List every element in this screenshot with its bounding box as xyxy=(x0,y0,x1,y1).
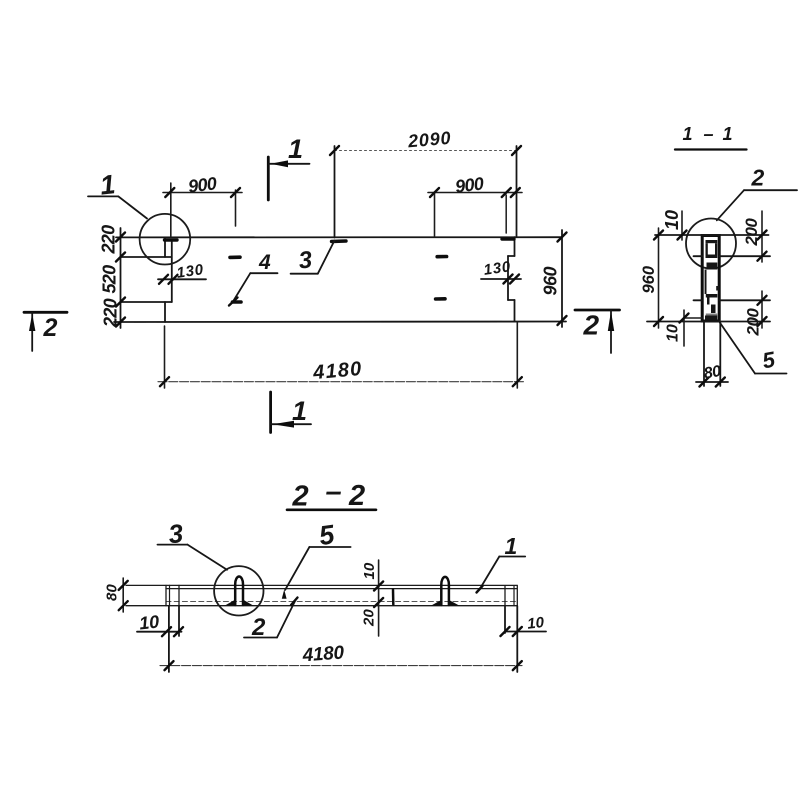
svg-text:1: 1 xyxy=(292,396,307,426)
svg-text:10: 10 xyxy=(138,611,160,633)
svg-text:2: 2 xyxy=(292,481,309,513)
svg-text:220: 220 xyxy=(101,298,121,328)
svg-text:1: 1 xyxy=(723,124,733,144)
svg-text:80: 80 xyxy=(104,584,121,601)
svg-text:1: 1 xyxy=(505,533,518,559)
svg-text:1: 1 xyxy=(288,134,303,164)
svg-text:2: 2 xyxy=(751,165,765,191)
svg-text:960: 960 xyxy=(541,266,561,295)
svg-text:1: 1 xyxy=(683,124,693,144)
svg-text:200: 200 xyxy=(744,308,763,337)
svg-text:20: 20 xyxy=(361,609,378,627)
svg-text:2: 2 xyxy=(348,480,365,512)
svg-text:10: 10 xyxy=(526,614,545,633)
svg-text:2090: 2090 xyxy=(406,128,452,152)
svg-text:900: 900 xyxy=(454,173,485,196)
svg-text:3: 3 xyxy=(297,246,314,274)
svg-text:220: 220 xyxy=(99,225,119,255)
svg-text:520: 520 xyxy=(100,265,120,294)
svg-text:2: 2 xyxy=(43,314,58,342)
svg-text:10: 10 xyxy=(662,210,682,230)
svg-text:–: – xyxy=(704,124,714,144)
svg-text:10: 10 xyxy=(361,562,378,579)
svg-text:2: 2 xyxy=(583,310,600,341)
svg-text:200: 200 xyxy=(742,218,761,247)
svg-text:5: 5 xyxy=(760,347,777,374)
svg-text:960: 960 xyxy=(640,265,658,293)
svg-text:4: 4 xyxy=(258,251,271,274)
svg-text:10: 10 xyxy=(665,324,682,342)
svg-text:–: – xyxy=(326,476,342,508)
svg-text:4180: 4180 xyxy=(301,642,345,666)
svg-text:4180: 4180 xyxy=(311,358,363,384)
svg-text:900: 900 xyxy=(187,173,218,196)
